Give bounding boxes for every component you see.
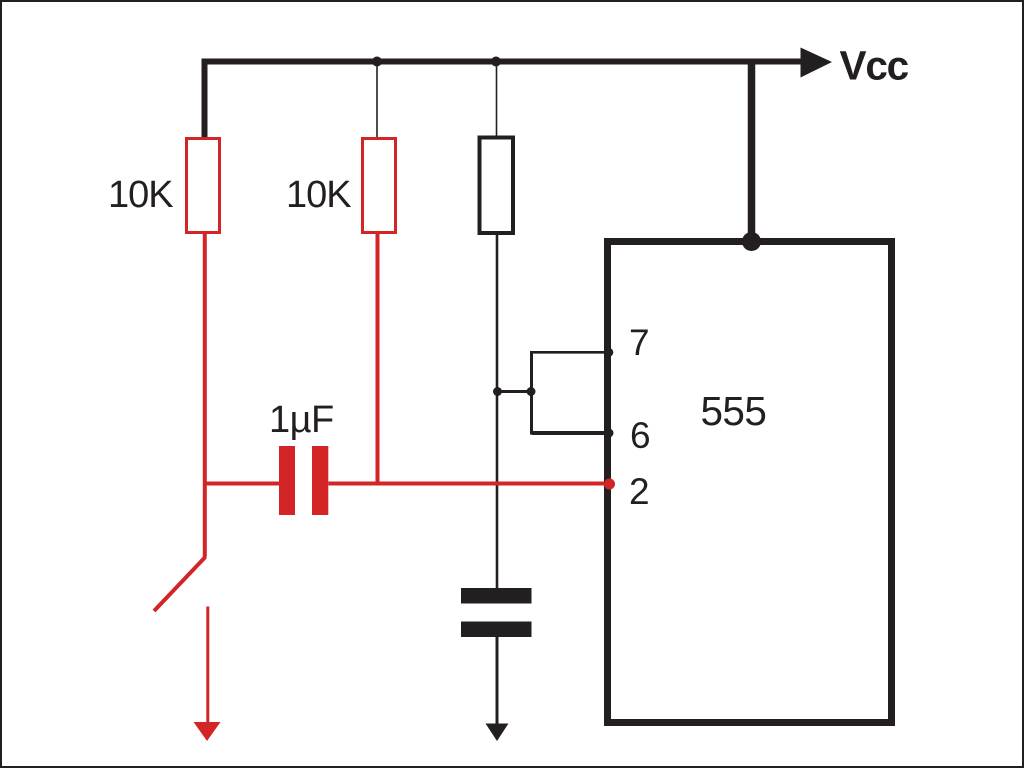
svg-text:10K: 10K — [108, 174, 173, 216]
ground arrowhead (red) — [194, 722, 221, 741]
junction dot (R3 wire / bracket stub) — [493, 387, 502, 396]
pin 7 dot — [605, 348, 614, 357]
wire bracket stub — [498, 390, 532, 393]
IC U1 555 — [608, 242, 892, 723]
resistor R2 10K — [363, 139, 396, 233]
capacitor C1 plate 2 — [312, 446, 328, 515]
pin 2 dot (red) — [604, 479, 615, 490]
wire rail to R2 — [376, 62, 378, 138]
svg-text:7: 7 — [629, 322, 650, 363]
capacitor C2 plate 1 — [461, 588, 532, 604]
resistor R1 10K — [187, 139, 220, 233]
wire node2 left segment — [203, 482, 279, 486]
capacitor C2 plate 2 — [461, 622, 532, 638]
wire C1 to 555 pin 2 — [328, 482, 609, 486]
wire switch to ground arrow — [206, 607, 209, 725]
wire R1 to switch — [203, 234, 207, 558]
wire C2 to ground — [496, 637, 499, 726]
pin 6 dot — [605, 429, 614, 438]
wire pin 6 (bracket bottom) — [532, 431, 609, 435]
svg-text:2: 2 — [629, 471, 650, 512]
wire rail to R3 — [496, 62, 498, 137]
svg-text:Vcc: Vcc — [840, 43, 909, 89]
junction dot (555 top / Vcc) — [742, 232, 761, 251]
wire R2 to node 2 net — [376, 234, 380, 486]
Vcc arrowhead — [801, 48, 833, 78]
wire pin 7 (bracket top) — [532, 351, 609, 354]
switch blade — [154, 557, 205, 611]
ground symbol — [486, 724, 509, 742]
wire bracket vertical — [530, 351, 533, 435]
resistor R3 — [480, 138, 514, 234]
junction dot (rail / R3 branch) — [491, 57, 501, 67]
capacitor C1 plate 1 — [279, 446, 295, 515]
junction dot (rail / R2 branch) — [372, 57, 382, 67]
junction dot (bracket mid) — [527, 387, 536, 396]
svg-text:6: 6 — [630, 415, 651, 456]
svg-text:10K: 10K — [286, 174, 351, 216]
wire R3 to C2 — [496, 235, 499, 588]
wire Vcc rail (top) — [205, 62, 802, 138]
wire Vcc rail to 555 pin 8 — [748, 62, 756, 241]
svg-text:555: 555 — [701, 388, 767, 434]
svg-text:1µF: 1µF — [269, 399, 334, 441]
